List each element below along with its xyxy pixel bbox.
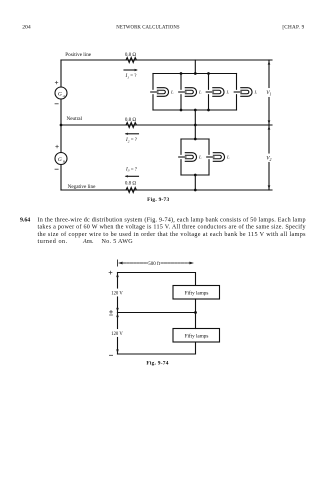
lamp L2 branch [179,74,197,111]
header page number [22,24,31,30]
dimension 120V lower [116,313,119,355]
svg-text:120 V: 120 V [111,291,123,296]
svg-text:9.64: 9.64 [20,217,30,223]
wire negative line [61,189,272,191]
resistor R negative 0.8 ohm [125,181,137,186]
wire positive line top [61,59,272,61]
svg-text:G: G [58,91,62,97]
header chapter [282,24,304,30]
svg-text:Fig. 9-74: Fig. 9-74 [146,360,168,366]
node neutral junction [194,124,197,127]
current arrow I3 [125,175,139,177]
svg-text:Fig. 9-73: Fig. 9-73 [147,197,169,203]
wire left rail upper (positive to GA) [60,60,62,87]
svg-text:[CHAP. 9: [CHAP. 9 [282,24,304,30]
label positive line [65,52,91,58]
svg-text:the size of copper wire to be: the size of copper wire to be used in or… [38,231,307,238]
bank2 bottom rail [181,174,209,176]
GB plus terminal label [56,145,59,148]
wire drop bank2 to negative [194,175,196,190]
wire middle to box2 [195,313,197,329]
svg-text:0.8 Ω: 0.8 Ω [125,53,137,58]
svg-text:turned on.: turned on. [38,239,68,245]
caption Fig. 9-74 [146,360,168,366]
node bank1 top b [194,72,197,75]
svg-text:L: L [226,90,230,95]
svg-text:V2: V2 [266,156,271,162]
node bank1 bottom a [180,109,183,112]
node bank2 top [194,138,197,141]
svg-text:No. 5 AWG: No. 5 AWG [102,239,134,245]
svg-text:0.8 Ω: 0.8 Ω [125,118,137,123]
wire drop neutral to bank2 [194,125,196,139]
svg-text:Negative line: Negative line [68,184,96,190]
node middle junction [194,311,197,314]
svg-text:L: L [198,155,202,160]
svg-text:L: L [254,90,258,95]
lamp L4 branch [234,74,252,111]
svg-text:Neutral: Neutral [67,116,83,122]
label negative line [68,184,96,190]
label plus minus [110,310,113,315]
svg-text:L: L [198,90,202,95]
svg-text:0.8 Ω: 0.8 Ω [125,181,137,186]
label plus [109,271,112,274]
label minus [109,354,112,356]
svg-text:I3 = ?: I3 = ? [125,167,138,172]
dimension 500 ft [118,260,195,266]
resistor R neutral 0.8 ohm [125,123,139,128]
lamp L5 branch [179,139,197,175]
wire middle neutral [118,312,196,314]
svg-text:I1 = ?: I1 = ? [125,74,138,79]
svg-text:120 V: 120 V [111,332,123,337]
GA minus terminal label [55,103,58,105]
wire drop positive to bank1 [194,60,196,74]
dimension V2 [268,125,271,190]
caption Fig. 9-73 [147,197,169,203]
svg-text:L: L [170,90,174,95]
GA plus terminal label [55,81,58,84]
load box fifty lamps 2 [173,329,220,343]
svg-text:Fifty lamps: Fifty lamps [185,289,209,296]
bank1 top rail [153,73,237,75]
node bank2 bottom [194,174,197,177]
lamp L6 branch [207,139,225,175]
lamp L1 branch [151,74,169,111]
dimension V1 [268,60,271,125]
wire drop bank1 to neutral [194,110,196,125]
current arrow I2 [125,133,139,135]
node bank1 top a [180,72,183,75]
node bank1 top c [207,72,210,75]
svg-text:takes a power of 60 W when the: takes a power of 60 W when the voltage i… [38,224,307,231]
node negative junction [194,189,197,192]
wire box1 to middle [195,299,197,313]
bank2 top rail [181,138,209,140]
wire left rail neutral to GB [60,125,62,153]
current arrow I3 label [125,167,138,172]
svg-text:V1: V1 [266,90,271,96]
svg-text:In the three-wire dc distribut: In the three-wire dc distribution system… [38,216,306,223]
wire box2 to bottom [118,342,196,354]
svg-text:Fifty lamps: Fifty lamps [185,332,209,339]
label neutral [67,116,83,122]
svg-text:204: 204 [22,24,31,30]
source GA [55,87,67,99]
node bank1 bottom b [194,109,197,112]
bank1 bottom rail [153,109,237,111]
source GB [55,153,67,165]
load box fifty lamps 1 [173,286,220,300]
resistor R positive 0.8 ohm [125,58,139,63]
svg-text:500 ft: 500 ft [148,262,160,267]
node left rail at neutral [60,124,63,127]
GB minus terminal label [55,168,58,170]
svg-text:NETWORK CALCULATIONS: NETWORK CALCULATIONS [116,25,180,30]
current arrow I1 [124,69,138,71]
lamp L3 branch [206,74,224,111]
wire left rail GB to negative [60,165,62,191]
dimension 120V upper [116,273,119,313]
wire left rail GA to neutral [60,99,62,125]
svg-text:Positive line: Positive line [65,52,91,58]
svg-text:I2 = ?: I2 = ? [125,138,138,143]
wire neutral line [61,124,272,126]
svg-text:G: G [58,157,62,163]
node bank1 bottom c [207,109,210,112]
svg-text:Ans.: Ans. [82,239,94,245]
wire top feeder [118,273,196,286]
svg-text:L: L [226,155,230,160]
header title [116,25,180,30]
